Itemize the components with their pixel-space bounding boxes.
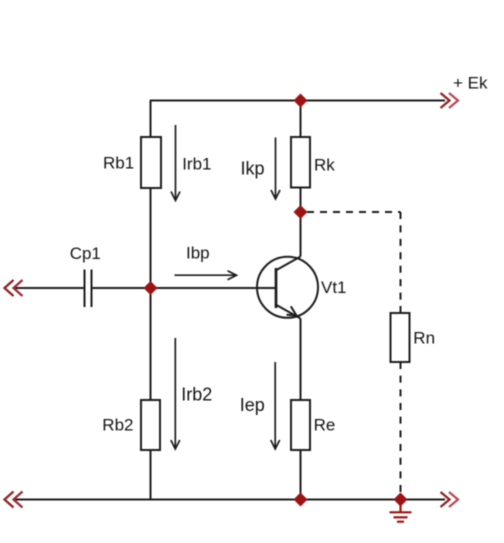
svg-text:Iep: Iep: [240, 395, 265, 415]
svg-text:Irb1: Irb1: [182, 155, 211, 174]
svg-text:Ikp: Ikp: [241, 159, 265, 179]
svg-text:Irb2: Irb2: [181, 385, 212, 405]
svg-text:Rn: Rn: [413, 329, 435, 348]
svg-text:Ibp: Ibp: [186, 244, 210, 263]
svg-text:+ Ek: + Ek: [453, 74, 488, 93]
svg-text:Rk: Rk: [314, 156, 335, 175]
svg-text:Rb2: Rb2: [102, 416, 133, 435]
svg-text:Cp1: Cp1: [70, 244, 101, 263]
svg-text:Vt1: Vt1: [321, 278, 347, 297]
svg-text:Re: Re: [314, 416, 336, 435]
svg-text:Rb1: Rb1: [103, 154, 134, 173]
